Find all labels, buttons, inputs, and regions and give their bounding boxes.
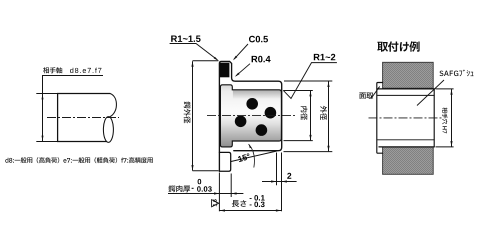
bushing OD bottom line	[379, 146, 434, 148]
tolerance upper 0	[198, 179, 202, 184]
graphite plug dot 3	[235, 116, 247, 128]
OD bottom extension line	[284, 151, 333, 153]
housing block bottom (hatched)	[383, 147, 434, 174]
dimension arrowheads OD/ID	[191, 61, 329, 170]
bore top shading strip	[233, 90, 281, 99]
label R1~2	[314, 54, 336, 61]
mating hole top extension line	[436, 88, 454, 90]
label 鍔外径 (vertical)	[184, 102, 191, 124]
label 相手軸 (mating shaft)	[43, 67, 62, 73]
shaft bottom edge extension line	[36, 141, 60, 143]
shaft centerline	[47, 117, 119, 119]
flange OD top extension line	[193, 60, 219, 62]
right view centerline	[369, 117, 444, 119]
caption d8/e7/f7 usage note	[5, 157, 152, 163]
leader SAFG bush	[417, 80, 444, 106]
label 長さ (length)	[232, 200, 246, 207]
graphite plug dot 2	[265, 107, 277, 119]
width-2 dimension line	[262, 181, 297, 183]
label 内径 (vertical)	[301, 106, 308, 120]
mating hole bottom extension line	[436, 146, 454, 148]
flange OD dimension line	[192, 61, 194, 170]
label 面取 (chamfer)	[359, 93, 373, 99]
graphite plug dot 1	[246, 98, 258, 110]
OD dimension line	[328, 81, 330, 151]
main view centerline	[207, 115, 297, 117]
housing block top (hatched)	[383, 62, 434, 88]
flange lower rim rectangle	[219, 152, 230, 171]
shaft dimension arrowheads	[42, 94, 44, 141]
shaft top edge extension line	[36, 93, 57, 95]
tolerance minus sign	[192, 188, 194, 189]
tolerance lower 0.03	[197, 186, 212, 191]
leader R0.4	[236, 64, 250, 76]
shaft break upper arc	[110, 94, 116, 117]
shaft break lens ellipse	[103, 117, 113, 143]
label 15deg	[238, 153, 251, 162]
bushing bore top line	[378, 94, 435, 96]
label 相手穴H7 (vertical)	[442, 108, 447, 134]
leader 面取	[371, 87, 380, 99]
label R0.4	[252, 56, 271, 63]
bottom dimension arrowheads	[214, 180, 287, 211]
ID dimension line	[310, 91, 312, 141]
15deg angle arc	[249, 144, 255, 167]
tolerance -0.3	[250, 202, 265, 208]
mating hole dimension arrowheads	[450, 89, 452, 146]
bore/recess interior gradient fill	[220, 85, 281, 147]
title 取付け例 (mounting example)	[377, 41, 419, 52]
label 外径 (vertical)	[320, 106, 327, 120]
leader R1~2 underline + open pointer	[283, 63, 337, 99]
length dimension line	[219, 210, 281, 212]
flange + body outline (upper)	[219, 61, 281, 171]
label 鍔肉厚 (flange thickness)	[168, 185, 190, 192]
label SAFGブシュ	[440, 70, 474, 77]
shaft outline	[58, 94, 110, 142]
bushing end face	[433, 89, 435, 147]
graphite plug dot 4	[256, 124, 268, 136]
flange OD bottom extension line	[193, 170, 219, 172]
leader R1~1.5	[170, 44, 218, 60]
15deg arc arrowhead	[249, 144, 252, 149]
bore ID top extension line	[284, 90, 313, 92]
bushing flange outline (right view)	[377, 83, 383, 154]
dimension text 2	[287, 173, 291, 179]
bushing bore bottom line	[378, 139, 435, 141]
flange left face extension line down	[218, 173, 220, 212]
surface finish symbol triangle	[212, 200, 219, 207]
bore ID bottom extension line	[284, 140, 313, 142]
flange right face extension line down	[230, 174, 232, 198]
taper junction extension line	[276, 153, 278, 186]
label d8.e7.f7	[70, 68, 101, 73]
bushing OD top line	[379, 88, 434, 90]
15deg taper line	[231, 151, 276, 161]
mating hole dimension line	[451, 89, 453, 147]
label R1~1.5	[171, 36, 200, 43]
flange cross-section blackened	[220, 63, 230, 78]
leader C0.5	[234, 44, 248, 59]
tolerance -0.1	[250, 195, 265, 201]
label leader underline + shaft dia dimension line	[43, 76, 104, 142]
OD top extension line	[284, 80, 332, 82]
label C0.5	[249, 36, 268, 43]
end face extension line down	[281, 153, 283, 212]
surface finish value 1.6	[213, 199, 217, 206]
flange thickness dimension line	[168, 193, 243, 195]
